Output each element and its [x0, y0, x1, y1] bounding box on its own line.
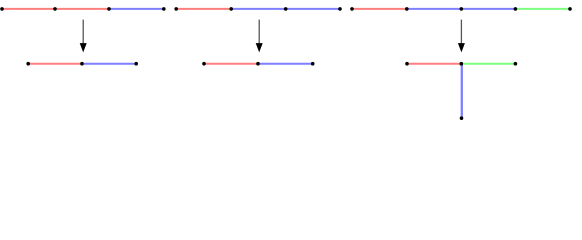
node f3: [514, 62, 518, 66]
node a3: [107, 7, 111, 11]
wire: graph3 top blue edge e2-e3: [407, 8, 462, 10]
node b1: [26, 62, 30, 66]
arrow 2 (contraction of graph2): [256, 20, 263, 53]
node f4: [460, 116, 464, 120]
wire: graph2 top red edge c1-c2: [176, 8, 231, 10]
node e5: [568, 7, 572, 11]
wire: graph2 bottom red edge d1-d2: [204, 63, 258, 65]
node e2: [405, 7, 409, 11]
node c2: [229, 7, 233, 11]
node e1: [350, 7, 354, 11]
node e3: [460, 7, 464, 11]
node a2: [53, 7, 57, 11]
wire: graph1 top red edge a2-a3: [55, 8, 109, 10]
node a4: [162, 7, 166, 11]
node c3: [284, 7, 288, 11]
wire: graph3 top blue edge e3-e4: [461, 8, 515, 10]
wire: graph3 top red edge e1-e2: [352, 8, 407, 10]
wire: graph2 bottom blue edge d2-d3: [258, 63, 313, 65]
node a1: [0, 7, 4, 11]
arrow 3 (contraction of graph3): [458, 20, 465, 53]
node d3: [311, 62, 315, 66]
wire: graph1 top red edge a1-a2: [2, 8, 55, 10]
node e4: [514, 7, 518, 11]
wire: graph3 top green edge e4-e5: [515, 8, 570, 10]
wire: graph1 top blue edge a3-a4: [109, 8, 164, 10]
arrow 1 (contraction of graph1): [80, 20, 87, 53]
wire: graph2 top blue edge c2-c3: [231, 8, 286, 10]
node f1: [405, 62, 409, 66]
node b3: [134, 62, 138, 66]
wire: graph3 bottom green edge f2-f3: [461, 63, 515, 65]
wire: graph1 bottom blue edge b2-b3: [82, 63, 136, 65]
node d2: [256, 62, 260, 66]
node f2: [460, 62, 464, 66]
node c4: [338, 7, 342, 11]
wire: graph1 bottom red edge b1-b2: [28, 63, 82, 65]
node d1: [202, 62, 206, 66]
node b2: [80, 62, 84, 66]
wire: graph2 top blue edge c3-c4: [286, 8, 340, 10]
wire: graph3 bottom red edge f1-f2: [407, 63, 461, 65]
node c1: [174, 7, 178, 11]
wire: graph3 bottom blue edge f2-f4 (vertical): [461, 64, 463, 118]
